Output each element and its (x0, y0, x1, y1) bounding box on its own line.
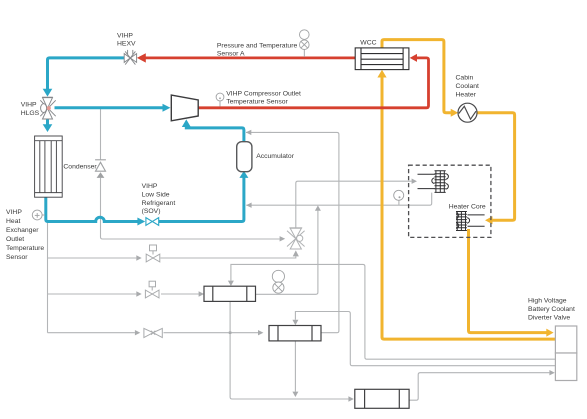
arrow: yellow into heater core coil (485, 216, 493, 224)
wire: yellow coolant WCC bottom to diverter valve (382, 76, 556, 339)
wire: blue refrigerant HLGS to compressor (55, 106, 163, 109)
arrow: up into star valve (293, 250, 299, 256)
wire: tee to pump P2 inlet top (295, 312, 339, 320)
svg-text:VIHP: VIHP (6, 209, 22, 216)
junction: valve V3 line and pump P1 drop (229, 331, 232, 334)
pump P2 (269, 326, 321, 341)
arrow: blue into SOV valve (137, 218, 145, 226)
arrow: left into accumulator top pipe (246, 130, 252, 135)
WCC heat exchanger (355, 48, 409, 70)
arrow: into star valve left (280, 236, 286, 241)
cabin coolant heater (458, 103, 477, 122)
sensor: VIHP compressor outlet temperature sensor (216, 93, 224, 106)
wire: accumulator return from heater core (246, 193, 431, 206)
coolant star valve (287, 228, 305, 249)
arrow: down into pump P2 top (292, 320, 298, 325)
sensor: VIHP heat exchanger outlet temperature sensor (32, 210, 45, 220)
arrow: blue into compressor inlet (163, 104, 171, 112)
wire: pump P1 bottom to pump P3 (230, 301, 348, 399)
pump P1 (204, 286, 256, 301)
svg-text:HLGS: HLGS (21, 110, 40, 117)
VIHP HLGS valve (40, 97, 55, 119)
sensor: coolant line pressure-temperature sensor (272, 270, 284, 293)
wire: yellow coolant heater core to diverter valve (469, 229, 547, 333)
arrow: down into pump P1 top (228, 281, 234, 286)
svg-text:Exchanger: Exchanger (6, 227, 39, 234)
svg-text:Heater Core: Heater Core (449, 204, 486, 211)
heater core coil upper (418, 171, 449, 193)
wire: yellow coolant WCC top to cabin heater (382, 40, 451, 113)
svg-text:WCC: WCC (360, 40, 376, 47)
arrow: red into HEXV valve (137, 53, 146, 62)
svg-text:Low Side: Low Side (142, 192, 170, 199)
svg-text:Temperature Sensor: Temperature Sensor (226, 99, 288, 106)
arrow: into valve V2 (136, 291, 141, 296)
svg-text:VIHP: VIHP (142, 183, 158, 190)
wire: red refrigerant WCC to HEXV (146, 57, 356, 60)
refrigerant check valve (95, 160, 106, 178)
wire: check valve branch lower to star valve (101, 178, 280, 239)
arrow: blue up into compressor bottom (182, 119, 191, 127)
wire: rail to valve V1 (48, 257, 137, 259)
svg-text:Refrigerant: Refrigerant (142, 200, 176, 207)
wire: left coolant rail (47, 223, 49, 333)
heater core coil lower (456, 212, 485, 231)
arrow: into valve V3 (135, 330, 140, 335)
svg-text:Condenser: Condenser (63, 163, 97, 170)
svg-text:Outlet: Outlet (6, 236, 24, 243)
condenser (35, 136, 63, 197)
wire: yellow coolant cabin heater to heater core (477, 113, 515, 221)
wire: blue refrigerant accumulator to compressor inlet (186, 127, 244, 142)
wire: pump P2 outlet to tee riser (321, 312, 339, 333)
svg-text:Coolant: Coolant (456, 83, 480, 90)
heater core dashed enclosure (409, 165, 491, 237)
arrow: into pump P3 inlet (348, 396, 353, 401)
arrow: up into accumulator return junction (315, 205, 321, 210)
svg-text:VIHP: VIHP (117, 32, 133, 39)
valve V1 (solenoid) (146, 245, 160, 262)
svg-text:VIHP Compressor Outlet: VIHP Compressor Outlet (226, 90, 301, 97)
accumulator (237, 142, 252, 172)
wire: rail to valve V3 (48, 332, 135, 334)
svg-text:Heater: Heater (456, 91, 477, 98)
wire: blue refrigerant HEXV to HLGS (48, 58, 125, 89)
wire: heater core sensor stub (398, 200, 400, 205)
arrow: blue down into HLGS valve (43, 89, 53, 97)
sensor: pressure and temperature sensor A (300, 30, 310, 57)
svg-text:Battery Coolant: Battery Coolant (528, 306, 575, 313)
wire: check valve branch upper (100, 109, 102, 160)
svg-text:High Voltage: High Voltage (528, 297, 567, 304)
svg-text:(SOV): (SOV) (142, 208, 161, 215)
wire: star valve to heater core feed (296, 181, 412, 228)
COLOR_WIRES_START (382, 40, 556, 340)
wire: heater-core loop return at y132 (246, 132, 339, 311)
wire: pump P2 bottom drop (294, 341, 296, 392)
wire: red refrigerant compressor to WCC (198, 58, 428, 108)
SOV solenoid valve (blue) (146, 218, 159, 226)
svg-text:Heat: Heat (6, 218, 20, 225)
wire: valve V1 to star valve riser (161, 256, 296, 258)
arrow: into heater core box (412, 179, 417, 184)
wire: blue refrigerant SOV to accumulator (159, 177, 244, 221)
valve V2 (solenoid) (145, 281, 159, 298)
GRAY_WIRES_START (48, 109, 556, 401)
svg-text:Temperature: Temperature (6, 245, 44, 252)
svg-text:Sensor: Sensor (6, 254, 28, 261)
pump P3 (355, 389, 409, 408)
svg-text:VIHP: VIHP (21, 102, 37, 109)
TEXT_START (6, 32, 575, 321)
compressor (171, 95, 198, 121)
wire: blue refrigerant condenser outlet to SOV (46, 198, 138, 222)
wire: pump P1 top feed from diverter valve (231, 264, 556, 359)
wire: pump P1 outlet riser to accumulator return (256, 211, 318, 295)
wire: tee to diverter valve mid port (339, 312, 556, 366)
svg-text:Cabin: Cabin (456, 74, 474, 81)
wire: pump P3 outlet to diverter valve (409, 373, 549, 401)
svg-text:HEXV: HEXV (117, 41, 136, 48)
arrow: into pump P1 inlet (199, 291, 204, 296)
wire: valve V2 to pump P1 (161, 293, 199, 295)
arrow: into valve V1 (136, 255, 141, 260)
wire: valve V3 to pump P2 with junction (164, 332, 259, 334)
arrow: into diverter valve bottom port (549, 370, 554, 375)
wire: blue refrigerant HLGS to condenser stub (46, 120, 49, 125)
svg-text:Accumulator: Accumulator (256, 153, 295, 160)
arrow: yellow up into WCC bottom (377, 70, 386, 78)
arrow: yellow into diverter valve top port (546, 329, 553, 337)
valve V3 (manual) (144, 328, 162, 337)
svg-text:Sensor A: Sensor A (217, 51, 245, 58)
wire: rail to valve V2 (48, 293, 137, 295)
svg-text:Diverter Valve: Diverter Valve (528, 314, 570, 321)
arrow: down to pump P3 line (292, 392, 298, 397)
arrow: yellow into cabin coolant heater (451, 109, 459, 117)
sensor: heater core outlet sensor (394, 190, 404, 200)
arrow: into pump P2 inlet (258, 330, 263, 335)
svg-text:Pressure and Temperature: Pressure and Temperature (217, 42, 298, 49)
arrow: blue down into condenser (43, 124, 53, 132)
arrow: left into accumulator bottom pipe (246, 203, 252, 208)
VIHP HEXV expansion valve (124, 50, 136, 65)
arrow: red into WCC right side (410, 54, 417, 62)
arrow: blue up into accumulator (239, 171, 248, 178)
high voltage battery coolant diverter valve (555, 326, 576, 381)
